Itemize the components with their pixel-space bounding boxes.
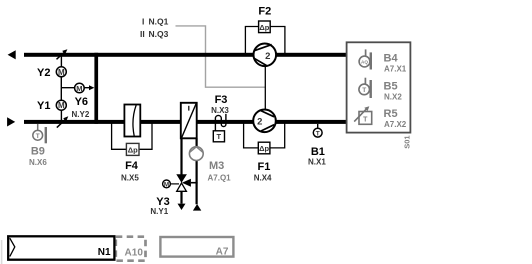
svg-text:T: T: [316, 130, 320, 137]
controller A10 (dashed): [116, 237, 146, 261]
svg-text:N.X2: N.X2: [384, 93, 402, 102]
sensor B1: [313, 124, 322, 137]
svg-text:A10: A10: [125, 248, 144, 259]
svg-text:Y6: Y6: [75, 96, 88, 108]
svg-text:R5: R5: [384, 108, 398, 120]
frost thermostat F3 capillary: [215, 114, 226, 131]
sensor B5 (temperature): [359, 78, 372, 98]
svg-text:II: II: [140, 29, 145, 39]
wire between Y2 and Y1 actuators: [60, 77, 62, 100]
pressure switch F4 dp box: [126, 143, 139, 155]
svg-text:Δp: Δp: [259, 144, 269, 153]
svg-text:M: M: [76, 84, 82, 93]
svg-text:B5: B5: [384, 81, 398, 93]
sensor B9: [33, 124, 47, 143]
damper actuator Y1: [56, 100, 68, 127]
svg-text:B1: B1: [311, 146, 325, 158]
wire vertical thick connecting pipes: [94, 53, 98, 124]
pump F1: [253, 110, 276, 133]
svg-text:N.X4: N.X4: [254, 173, 272, 182]
pressure switch F2 dp box: [259, 21, 271, 33]
pump F2: [253, 44, 276, 67]
controller A7: [160, 237, 233, 257]
svg-text:A7.X1: A7.X1: [384, 64, 407, 73]
zone box S01: [347, 42, 411, 132]
svg-text:F3: F3: [215, 94, 228, 106]
svg-text:N.Q1: N.Q1: [149, 17, 169, 27]
svg-text:2: 2: [265, 51, 270, 62]
svg-text:N.X3: N.X3: [211, 106, 229, 115]
svg-text:M: M: [164, 181, 169, 188]
svg-text:B4: B4: [384, 52, 399, 64]
arrow left end bottom pipe: [7, 117, 15, 126]
svg-text:AQ: AQ: [361, 60, 368, 65]
pressure switch F4 dp bracket: [112, 123, 152, 149]
svg-text:N.Y1: N.Y1: [150, 207, 168, 216]
wire grey from pump labels I N.Q1 / II N.Q3: [176, 26, 266, 87]
pump M3: [189, 147, 203, 161]
svg-text:T: T: [36, 133, 40, 140]
room unit R5: [354, 106, 372, 124]
arrow down below valve Y3: [180, 192, 182, 204]
svg-text:Y2: Y2: [37, 67, 50, 79]
svg-text:I: I: [142, 17, 144, 27]
pressure switch F1 dp box: [258, 142, 270, 154]
pipe bottom (supply): [24, 120, 346, 124]
svg-text:T: T: [217, 132, 222, 141]
actuator M of Y3: [163, 180, 179, 188]
svg-text:T: T: [363, 117, 368, 124]
pressure switch F2 dp bracket: [245, 27, 285, 54]
svg-text:F2: F2: [258, 5, 271, 17]
pipe coil right leg: [196, 139, 198, 205]
bus stub left edge: [1, 240, 3, 264]
svg-text:Y1: Y1: [37, 100, 50, 112]
pipe coil left leg: [180, 139, 182, 176]
svg-text:A7.X2: A7.X2: [384, 120, 407, 129]
arrow up right leg: [193, 204, 201, 211]
svg-text:N.Q3: N.Q3: [149, 29, 169, 39]
svg-text:2: 2: [257, 116, 262, 127]
svg-text:A7: A7: [216, 247, 229, 258]
pressure switch F1 dp bracket: [244, 123, 285, 148]
filter F4: [124, 105, 140, 137]
svg-text:M: M: [58, 101, 65, 110]
arrow left end top pipe: [8, 50, 16, 59]
damper actuator Y2: [56, 49, 67, 77]
valve Y3 three-way: [176, 174, 197, 191]
wire between pumps: [264, 66, 266, 111]
svg-text:M: M: [58, 68, 65, 77]
svg-text:M3: M3: [209, 160, 224, 172]
svg-text:N.X6: N.X6: [29, 158, 47, 167]
svg-text:S01: S01: [402, 135, 411, 148]
thermostat F3 box: [213, 131, 224, 142]
svg-text:T: T: [362, 87, 366, 94]
heating coil with stage I mark: [181, 103, 197, 139]
actuator Y6: [61, 83, 94, 93]
svg-text:N.X1: N.X1: [308, 158, 326, 167]
svg-text:Δp: Δp: [128, 146, 138, 155]
svg-text:A7.Q1: A7.Q1: [208, 173, 232, 182]
svg-text:N.Y2: N.Y2: [72, 110, 90, 119]
svg-text:Δp: Δp: [259, 23, 269, 32]
svg-text:N1: N1: [98, 247, 111, 258]
sensor B4 (air quality): [359, 49, 372, 69]
svg-text:F4: F4: [125, 160, 139, 172]
pipe top (return): [24, 53, 346, 57]
bus pennant in N1: [10, 238, 15, 256]
controller N1: [8, 236, 114, 259]
svg-text:F1: F1: [257, 161, 270, 173]
svg-text:B9: B9: [31, 146, 45, 158]
svg-text:N.X5: N.X5: [121, 173, 139, 182]
